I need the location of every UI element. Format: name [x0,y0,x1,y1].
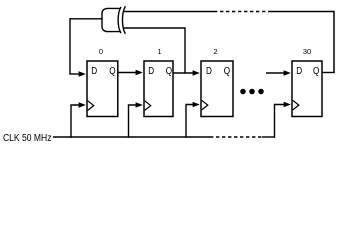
D flip-flop 30 [292,47,322,117]
svg-text:Q: Q [224,64,230,76]
svg-text:D: D [91,64,97,76]
wire: clock rail solid right part [262,136,275,138]
wire: feedback left vertical [69,18,71,74]
svg-text:Q: Q [313,64,319,76]
wire: clock rail dashed middle part [210,136,262,138]
ellipsis dots between flip-flop 2 and 30 [240,89,264,95]
wire: XOR upper input dashed middle part [214,11,268,13]
clock pin triangle of flip-flop 2 [202,100,208,110]
wire: Q0 to D1 [118,70,143,76]
svg-text:0: 0 [99,47,103,56]
wire: clock branch to flip-flop 0 [71,102,86,138]
wire: XOR upper input solid right part [268,11,334,13]
svg-text:1: 1 [157,47,161,56]
D flip-flop 1 [144,47,173,117]
flip-flop 1 body [144,61,173,117]
wire: clock branch to flip-flop 1 [129,102,143,138]
wire: into D of flip-flop 0 [69,71,86,77]
svg-text:D: D [296,64,302,76]
wire: right vertical from Q of flip-flop 30 [333,11,335,73]
svg-text:30: 30 [303,47,311,56]
svg-text:Q: Q [166,64,172,76]
D flip-flop 0 [87,47,118,117]
xor gate U1 input double-curve [122,6,125,34]
wire: XOR lower input [124,27,185,29]
flip-flop 2 body [201,61,233,117]
D flip-flop 2 [201,47,233,117]
clock pin triangle of flip-flop 0 [88,101,94,111]
wire: Q1 to D2 with tap junction [173,70,200,76]
svg-text:CLK 50 MHz: CLK 50 MHz [3,131,52,143]
wire: Q output of flip-flop 30 [322,72,335,74]
svg-text:2: 2 [213,47,217,56]
wire: clock branch to flip-flop 2 [186,102,200,138]
wire: XOR upper input solid left part [124,11,214,13]
wire: clock branch to flip-flop 30 [275,102,291,138]
wire: tap vertical from node between flip-flop 1 and 2 [184,27,186,73]
svg-text:Q: Q [109,64,115,76]
xor gate U1 body [102,7,121,33]
wire: XOR output stub [70,18,103,20]
flip-flop 0 body [87,61,118,117]
flip-flop 30 body [292,61,322,117]
svg-text:D: D [148,64,154,76]
clock pin triangle of flip-flop 30 [293,100,299,110]
wire: clock rail solid left part [53,136,210,138]
wire: into D of flip-flop 30 [266,70,291,76]
clock pin triangle of flip-flop 1 [145,101,151,111]
svg-text:D: D [206,64,212,76]
